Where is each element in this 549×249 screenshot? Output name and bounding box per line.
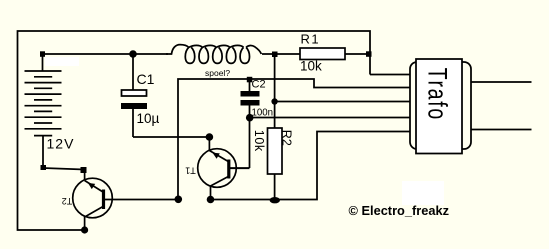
node battery minus corner bbox=[41, 165, 47, 170]
wire C2 bottom to transformer pin 4 bbox=[250, 117, 410, 119]
T2 emitter arrow bbox=[88, 183, 95, 189]
resistor R1 bbox=[300, 48, 345, 60]
wire coil to R1 bbox=[262, 53, 300, 55]
wire outer loop frame (battery+ to R1 top / T2 emitter) bbox=[18, 31, 371, 230]
resistor R2 bbox=[268, 128, 283, 174]
svg-text:T1: T1 bbox=[185, 166, 196, 176]
wire transformer secondary pin 6 bbox=[471, 81, 532, 83]
svg-text:10µ: 10µ bbox=[137, 111, 160, 126]
white patch over battery wire bbox=[45, 57, 79, 66]
node C1 top junction bbox=[129, 50, 137, 58]
svg-text:T2: T2 bbox=[62, 196, 73, 206]
wire tap to transformer pin 3 bbox=[275, 101, 410, 103]
wire R2 bottom lead bbox=[274, 174, 276, 200]
wire bottom rail (T1 emitter / R2 / transformer pin 5) bbox=[211, 132, 411, 200]
capacitor C1 bbox=[132, 54, 134, 90]
transistor T1 bbox=[198, 137, 250, 200]
svg-text:R1: R1 bbox=[301, 32, 321, 47]
node C2 top junction bbox=[247, 77, 253, 83]
battery B1 12V bbox=[42, 54, 44, 71]
transistor T2 bbox=[73, 170, 178, 230]
wire branch down from coil junction to R2 bbox=[274, 54, 276, 129]
transformer TR1 outer body bbox=[410, 62, 471, 149]
node tap to transformer pin 3 bbox=[271, 98, 277, 104]
node T2 collector junction bbox=[81, 167, 87, 173]
node T1 collector junction bbox=[206, 133, 214, 141]
node R2 bottom junction bbox=[270, 197, 280, 203]
transformer TR1 inner body bbox=[416, 59, 462, 154]
wire R1 right to frame vertical bbox=[345, 53, 370, 55]
svg-text:12V: 12V bbox=[47, 136, 75, 152]
node C2 bottom junction bbox=[246, 114, 254, 122]
inductor L1 "spoel?" bbox=[166, 45, 261, 64]
T1 emitter arrow bbox=[212, 153, 219, 159]
svg-text:C1: C1 bbox=[137, 71, 155, 87]
wire main top rail y=54 bbox=[43, 53, 169, 55]
wire inner box top (C2 rail) bbox=[178, 79, 410, 199]
wire battery minus to T2 bbox=[43, 168, 84, 170]
node junction coil/R1/R2 branch bbox=[272, 52, 278, 58]
svg-text:10k: 10k bbox=[300, 59, 322, 74]
svg-text:10k: 10k bbox=[252, 130, 266, 152]
node battery top junction bbox=[40, 51, 45, 57]
node T1 emitter junction bbox=[207, 196, 215, 204]
wire transformer secondary pin 7 bbox=[471, 129, 532, 131]
capacitor C2 bbox=[249, 82, 251, 91]
svg-text:© Electro_freakz: © Electro_freakz bbox=[349, 203, 449, 218]
node R1 right junction bbox=[366, 51, 372, 57]
node T2 base junction bbox=[175, 196, 183, 204]
wire C2 bottom to T1 base bbox=[229, 167, 250, 169]
svg-text:Trafo: Trafo bbox=[423, 68, 453, 121]
wire frame to transformer pin 1 bbox=[370, 74, 410, 76]
white patch above copyright bbox=[402, 181, 444, 205]
node T2 emitter junction (bottom rail) bbox=[81, 226, 88, 233]
svg-text:R2: R2 bbox=[280, 130, 294, 146]
svg-text:spoel?: spoel? bbox=[205, 68, 230, 78]
wire C1 bottom to T1 collector bbox=[133, 136, 209, 138]
svg-text:C2: C2 bbox=[252, 79, 266, 91]
